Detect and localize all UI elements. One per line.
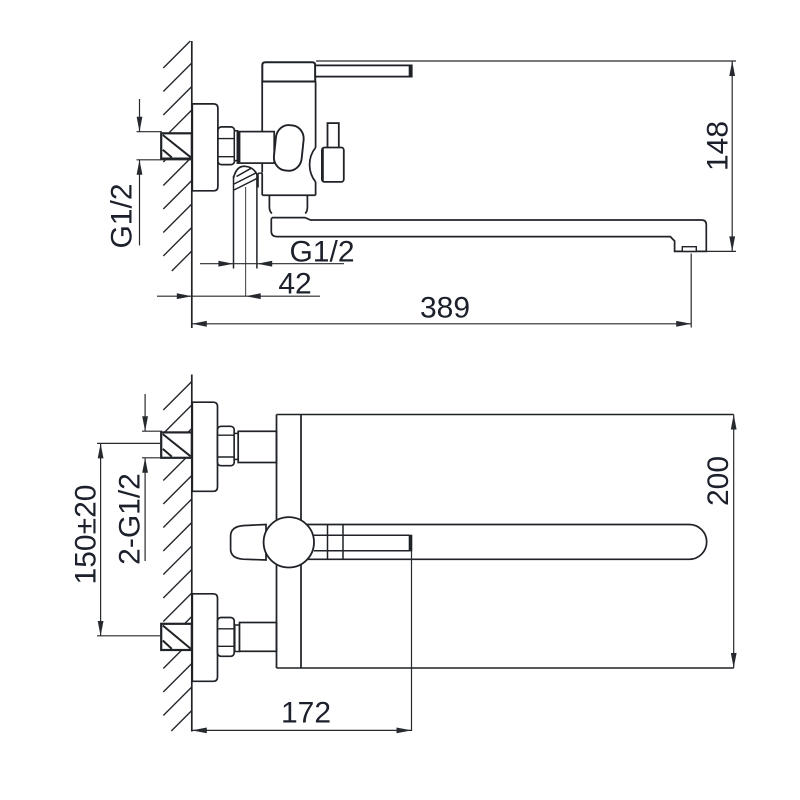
escutcheon plate (top view) [192, 104, 218, 191]
svg-text:2-G1/2: 2-G1/2 [114, 473, 147, 565]
dimension 389 [192, 323, 691, 325]
dimension 148 [316, 60, 736, 62]
dimension 200 [733, 415, 735, 669]
dimension 150±20 [100, 443, 102, 636]
connection pipe upper (bottom view) [238, 431, 276, 462]
faucet body column (bottom view) [276, 415, 278, 521]
eccentric union (hatched, top view) [234, 166, 258, 178]
hex nut (top view) [218, 127, 235, 165]
thread stub lower (bottom view) [235, 625, 240, 652]
svg-text:150±20: 150±20 [70, 485, 103, 585]
dimension G1/2 horizontal (union thread) [200, 263, 344, 265]
svg-text:389: 389 [420, 292, 470, 325]
svg-text:G1/2: G1/2 [106, 183, 139, 248]
dimension 2-G1/2 [144, 394, 146, 431]
escutcheon plate lower (bottom view) [192, 594, 217, 682]
dimension G1/2 vertical (wall socket) [139, 99, 141, 132]
hex nut upper (bottom view) [218, 426, 235, 465]
svg-text:42: 42 [278, 267, 311, 300]
thread stub (top view) [234, 131, 237, 161]
extension line bottom (200 dim) [277, 667, 734, 669]
thread stub upper (bottom view) [234, 433, 238, 459]
spout aerator [682, 247, 696, 252]
spout bar (bottom view) [305, 525, 707, 560]
spout base neck (top view) [269, 195, 272, 213]
spout collar dividers (bottom view) [327, 525, 329, 560]
wall hatching (bottom view) [163, 382, 192, 411]
escutcheon plate upper (bottom view) [192, 402, 217, 491]
svg-text:172: 172 [281, 697, 331, 730]
svg-text:200: 200 [702, 456, 735, 506]
handle bar (bottom view) [314, 534, 410, 536]
dimension 172 [411, 551, 413, 731]
wall line (bottom view) [191, 375, 193, 732]
handle lever (top view) [315, 65, 412, 76]
handle lever stub (bottom view) [231, 525, 266, 561]
valve cap oval (top view) [273, 124, 305, 172]
spout (top view) [271, 218, 706, 252]
cartridge circle (bottom view) [264, 517, 314, 567]
svg-text:G1/2: G1/2 [289, 236, 354, 269]
wall pipe socket box upper (bottom view) [161, 432, 192, 457]
svg-text:148: 148 [702, 121, 735, 171]
dimension 42 [157, 295, 320, 297]
pipe axis line [245, 187, 247, 296]
wall hatching (top view) [163, 41, 190, 68]
wall pipe socket box lower (bottom view) [161, 624, 192, 650]
body top cap (top view) [262, 62, 315, 81]
diverter knob (top view) [322, 148, 344, 182]
inlet pipe (top view) [237, 132, 274, 164]
union side lines / G1/2 extension lines [233, 176, 235, 269]
connection pipe lower (bottom view) [240, 623, 277, 652]
faucet body (top view) [261, 82, 263, 132]
hex nut lower (bottom view) [218, 618, 235, 657]
wall line (top view) [191, 41, 193, 328]
diverter stem (top view) [328, 123, 339, 149]
extension line top (200 dim) [277, 414, 734, 416]
wall pipe socket box (top view) [161, 133, 192, 158]
